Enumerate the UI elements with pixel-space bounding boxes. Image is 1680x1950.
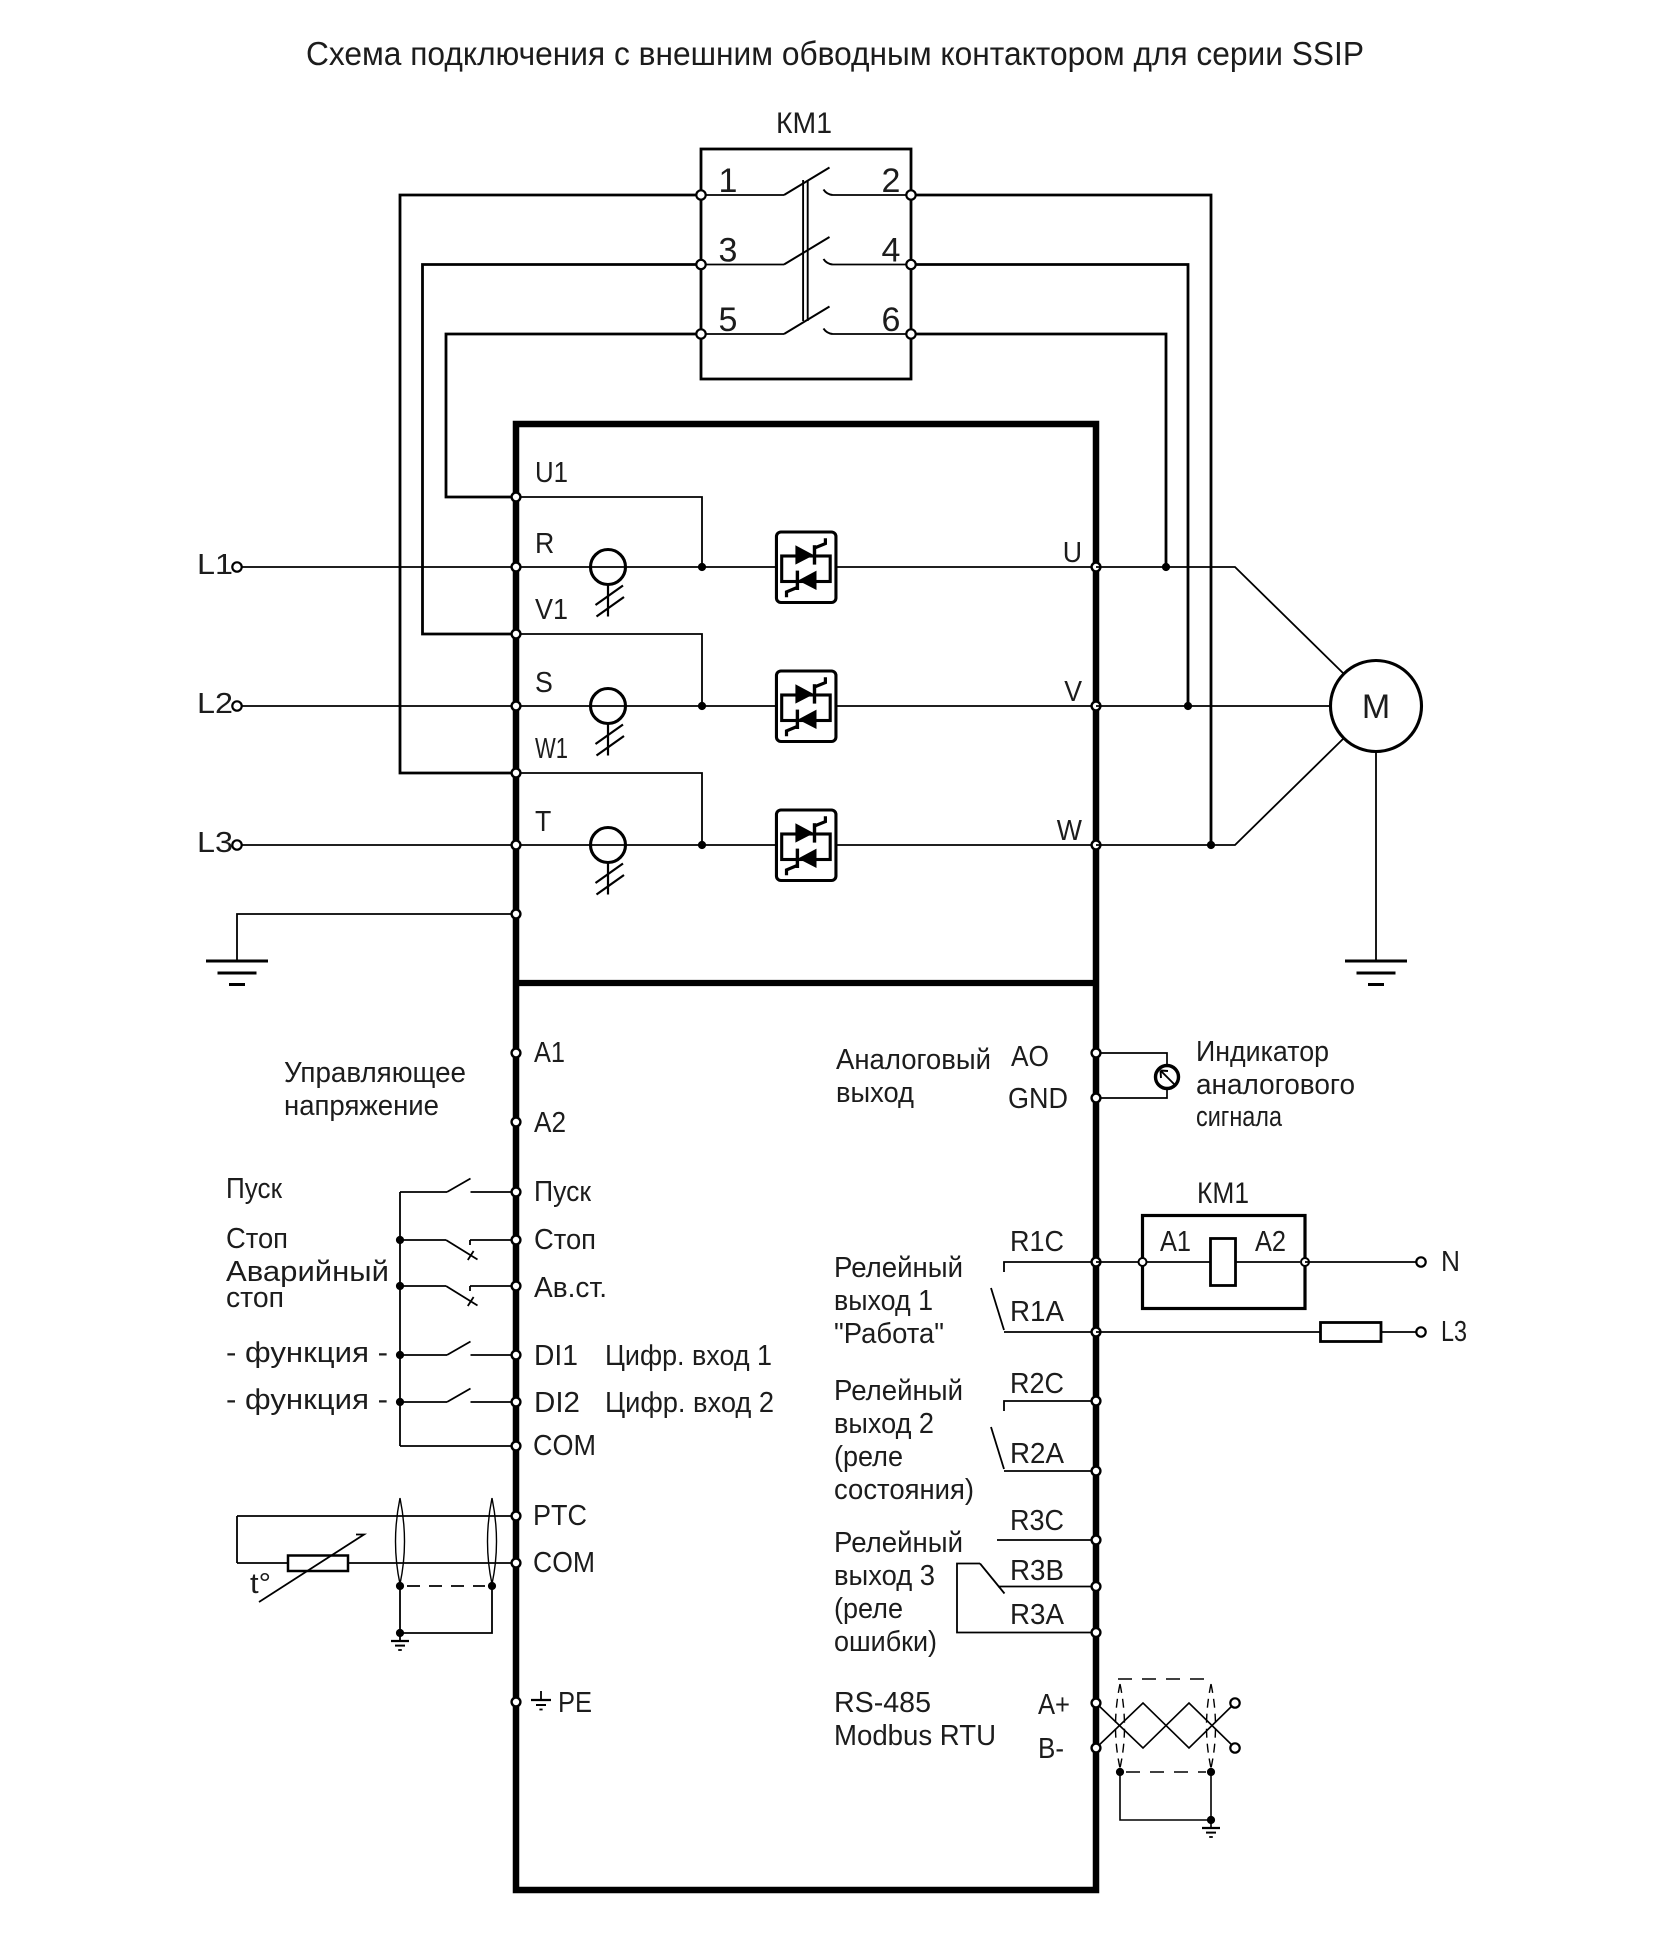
terminal W1 [512, 769, 521, 778]
terminal T [512, 841, 521, 850]
svg-text:4: 4 [882, 232, 901, 270]
soft starter enclosure [516, 424, 1096, 1890]
svg-text:5: 5 [719, 301, 738, 339]
svg-text:A+: A+ [1038, 1689, 1070, 1721]
node L3 (coil supply) [1416, 1327, 1425, 1336]
emergency stop button SB3 (Ав.ст.) contact (NC) [400, 1286, 516, 1306]
svg-text:DI1: DI1 [534, 1340, 578, 1372]
remote node B- [1230, 1743, 1239, 1752]
svg-text:t°: t° [250, 1568, 271, 1600]
terminal GND [1092, 1094, 1101, 1103]
stop button SB2 (Стоп) contact (NC) [400, 1240, 516, 1260]
terminal DI2 [512, 1398, 521, 1407]
svg-text:Стоп: Стоп [226, 1223, 288, 1255]
screen drain junction [396, 1629, 404, 1637]
terminal R3C [1092, 1536, 1101, 1545]
junction of W1 tap [698, 841, 706, 849]
start button SB1 (Пуск) contact (NO) [400, 1179, 516, 1193]
wire bus to COM [400, 1445, 516, 1447]
screen drain node right [488, 1582, 496, 1590]
thyristor pair phase T [776, 810, 836, 881]
KM1 terminal 4 [906, 260, 915, 269]
svg-text:выход 2: выход 2 [834, 1408, 934, 1440]
supply terminal L1 [232, 562, 241, 571]
svg-text:A1: A1 [1160, 1226, 1191, 1258]
KM1 main contact 1-2 [701, 168, 911, 196]
junction KM1 bypass to U [1162, 563, 1170, 571]
bypass tap wire W1 [516, 773, 702, 845]
svg-text:L2: L2 [197, 688, 233, 720]
KM1 coil terminal A1 [1139, 1258, 1147, 1266]
svg-text:V1: V1 [535, 594, 568, 626]
svg-text:Управляющее: Управляющее [284, 1057, 466, 1089]
current sensor on phase S [591, 689, 626, 756]
svg-text:AO: AO [1011, 1041, 1049, 1073]
wire KM1 pin3 to V1 [423, 265, 702, 635]
svg-text:W1: W1 [535, 733, 568, 765]
thyristor pair phase R [776, 532, 836, 603]
terminal R1A [1092, 1328, 1101, 1337]
terminal COM [512, 1442, 521, 1451]
svg-text:U: U [1063, 537, 1082, 569]
KM1 main contact 3-4 [701, 237, 911, 265]
svg-text:T: T [535, 806, 552, 838]
KM1 coil terminal A2 [1301, 1258, 1309, 1266]
svg-text:Цифр. вход 1: Цифр. вход 1 [605, 1340, 772, 1372]
digital input common bus [399, 1192, 401, 1446]
terminal R1C [1092, 1258, 1101, 1267]
fuse FU1 [1321, 1323, 1382, 1342]
svg-text:Пуск: Пуск [226, 1173, 282, 1205]
terminal U1 [512, 493, 521, 502]
thyristor pair phase S [776, 671, 836, 742]
svg-text:Аналоговый: Аналоговый [836, 1044, 991, 1076]
screen ground stub [399, 1633, 401, 1641]
junction DI1 bus [396, 1351, 404, 1359]
current sensor on phase T [591, 828, 626, 895]
terminal U [1092, 563, 1101, 572]
svg-text:выход 3: выход 3 [834, 1560, 935, 1592]
svg-text:PTC: PTC [533, 1500, 587, 1532]
KM1 mechanical linkage [803, 180, 808, 321]
svg-text:Пуск: Пуск [534, 1176, 591, 1208]
terminal R3B [1092, 1582, 1101, 1591]
svg-text:выход 1: выход 1 [834, 1285, 933, 1317]
KM1 terminal 5 [696, 329, 705, 338]
svg-text:3: 3 [719, 232, 738, 270]
svg-text:КМ1: КМ1 [776, 107, 832, 140]
wire fuse to L3 [1381, 1331, 1417, 1333]
terminal Стоп [512, 1236, 521, 1245]
ground (PTC screen) [391, 1641, 409, 1650]
wire W to motor [1096, 738, 1344, 845]
svg-text:L3: L3 [197, 827, 233, 859]
motor M1 [1331, 661, 1422, 752]
wire KM1 pin1 to W1 [400, 195, 701, 773]
screen drain wire left [1120, 1772, 1211, 1820]
svg-text:ошибки): ошибки) [834, 1626, 937, 1658]
svg-text:U1: U1 [535, 457, 568, 489]
screen drain wire right [400, 1586, 492, 1633]
svg-text:Ав.ст.: Ав.ст. [534, 1272, 607, 1304]
terminal W [1092, 841, 1101, 850]
terminal S [512, 702, 521, 711]
terminal DI1 [512, 1351, 521, 1360]
svg-text:L1: L1 [197, 549, 233, 581]
svg-text:Цифр. вход 2: Цифр. вход 2 [605, 1387, 774, 1419]
wire R1C to KM1 coil [1096, 1261, 1142, 1263]
wire KM1 pin6 to U output [911, 334, 1166, 567]
svg-text:GND: GND [1008, 1083, 1068, 1115]
starter earth wire [237, 914, 516, 961]
terminal V [1092, 702, 1101, 711]
PE earth glyph [531, 1691, 551, 1710]
thermistor strike line [259, 1535, 364, 1603]
ground (RS-485 screen) [1202, 1828, 1220, 1837]
function switch DI2 contact (NO) [400, 1389, 516, 1403]
terminal AO [1092, 1049, 1101, 1058]
svg-text:стоп: стоп [226, 1282, 284, 1314]
KM1 terminal 2 [906, 190, 915, 199]
wire A2 to N [1305, 1261, 1417, 1263]
terminal V1 [512, 630, 521, 639]
junction stop bus [396, 1236, 404, 1244]
svg-text:Стоп: Стоп [534, 1224, 596, 1256]
svg-text:6: 6 [882, 301, 901, 339]
svg-text:- функция -: - функция - [226, 1384, 388, 1416]
svg-text:R3B: R3B [1010, 1555, 1064, 1587]
remote node A+ [1230, 1698, 1239, 1707]
junction of V1 tap [698, 702, 706, 710]
thermistor RK1 body [288, 1556, 348, 1572]
KM1 coil wire A1 side [1147, 1261, 1210, 1263]
svg-text:R1C: R1C [1010, 1226, 1064, 1258]
terminal A2 [512, 1118, 521, 1127]
terminal Ав.ст. [512, 1282, 521, 1291]
screen drain junction [1207, 1816, 1215, 1824]
svg-text:"Работа": "Работа" [834, 1318, 944, 1350]
cable screen mark right [1207, 1684, 1216, 1768]
PTC cable screen mark right [488, 1498, 497, 1584]
wire U to motor [1096, 567, 1344, 674]
wire R1A to fuse [1096, 1331, 1320, 1333]
function switch DI1 contact (NO) [400, 1342, 516, 1356]
svg-text:R: R [535, 528, 554, 560]
power / control section divider [516, 980, 1096, 986]
wire L3 to input T [242, 844, 516, 846]
svg-text:R3A: R3A [1010, 1599, 1065, 1631]
svg-text:N: N [1441, 1246, 1460, 1278]
screen drain node left [396, 1582, 404, 1590]
svg-text:M: M [1362, 688, 1390, 726]
terminal COM (PTC return) [512, 1559, 521, 1568]
starter earth terminal [512, 910, 521, 919]
svg-text:Релейный: Релейный [834, 1252, 963, 1284]
wire L1 to input R [242, 566, 516, 568]
wire input T to thyristor [516, 844, 782, 846]
junction emergency stop bus [396, 1282, 404, 1290]
svg-text:A2: A2 [534, 1107, 566, 1139]
wire input R to thyristor [516, 566, 782, 568]
screen drain node left [1116, 1768, 1124, 1776]
terminal R2A [1092, 1467, 1101, 1476]
terminal A1 [512, 1049, 521, 1058]
svg-text:1: 1 [719, 162, 738, 200]
svg-text:аналогового: аналогового [1196, 1069, 1355, 1101]
wire L2 to input S [242, 705, 516, 707]
screen drain node right [1207, 1768, 1215, 1776]
terminal PE [512, 1698, 521, 1707]
junction KM1 bypass to W [1207, 841, 1215, 849]
terminal PTC [512, 1512, 521, 1521]
supply terminal L2 [232, 701, 241, 710]
bypass tap wire U1 [516, 497, 702, 567]
bypass tap wire V1 [516, 634, 702, 706]
node N [1416, 1257, 1425, 1266]
wire PTC loop left [236, 1516, 238, 1563]
terminal R2C [1092, 1397, 1101, 1406]
cable screen mark left [1116, 1684, 1125, 1768]
wire indicator to GND [1096, 1089, 1167, 1099]
svg-text:(реле: (реле [834, 1441, 903, 1473]
svg-text:напряжение: напряжение [284, 1090, 439, 1122]
ground (starter earth) [206, 961, 268, 985]
svg-text:A1: A1 [534, 1037, 565, 1069]
junction DI2 bus [396, 1398, 404, 1406]
motor earth wire [1375, 752, 1377, 962]
svg-text:DI2: DI2 [534, 1387, 580, 1419]
terminal R3A [1092, 1628, 1101, 1637]
svg-text:2: 2 [882, 162, 901, 200]
svg-text:R2C: R2C [1010, 1368, 1064, 1400]
ground (motor) [1345, 961, 1407, 985]
cable sheath dashed outline [1118, 1679, 1212, 1772]
wire thyristor to output U [831, 566, 1097, 568]
wire thyristor to output W [831, 844, 1097, 846]
svg-text:W: W [1057, 815, 1083, 847]
wire KM1 pin4 to V output [911, 265, 1188, 707]
KM1 coil element [1211, 1239, 1236, 1286]
svg-text:R3C: R3C [1010, 1505, 1064, 1537]
wire KM1 pin2 to W output [911, 195, 1211, 845]
KM1 terminal 1 [696, 190, 705, 199]
screen drain wire right [1210, 1772, 1212, 1820]
relay contact R2 [991, 1401, 1096, 1471]
svg-text:COM: COM [533, 1430, 596, 1462]
screen ground stub [1210, 1820, 1212, 1828]
junction KM1 bypass to V [1184, 702, 1192, 710]
svg-text:PE: PE [558, 1687, 592, 1719]
svg-text:S: S [535, 667, 553, 699]
svg-text:Релейный: Релейный [834, 1375, 963, 1407]
svg-text:КМ1: КМ1 [1197, 1177, 1249, 1210]
svg-text:(реле: (реле [834, 1593, 903, 1625]
wire PTC loop bottom [237, 1562, 516, 1564]
svg-text:V: V [1064, 676, 1082, 708]
svg-text:COM: COM [533, 1547, 595, 1579]
KM1 main contact 5-6 [701, 307, 911, 335]
svg-text:Индикатор: Индикатор [1196, 1036, 1329, 1068]
terminal A+ [1092, 1699, 1101, 1708]
KM1 terminal 6 [906, 329, 915, 338]
supply terminal L3 [232, 840, 241, 849]
svg-text:Modbus RTU: Modbus RTU [834, 1720, 996, 1752]
KM1 coil wire A2 side [1236, 1261, 1300, 1263]
terminal Пуск [512, 1188, 521, 1197]
KM1 terminal 3 [696, 260, 705, 269]
relay contact R3 (changeover) [957, 1540, 1096, 1633]
indicator needle [1161, 1071, 1175, 1085]
terminal R [512, 563, 521, 572]
svg-text:A2: A2 [1255, 1226, 1286, 1258]
svg-text:R2A: R2A [1010, 1438, 1065, 1470]
relay contact R1 [991, 1262, 1096, 1332]
svg-text:B-: B- [1038, 1733, 1064, 1765]
svg-text:- функция -: - функция - [226, 1337, 388, 1369]
RS-485 twisted pair wire B [1096, 1703, 1235, 1748]
svg-text:RS-485: RS-485 [834, 1687, 931, 1719]
svg-text:Схема подключения с внешним об: Схема подключения с внешним обводным кон… [306, 35, 1364, 72]
wire V to motor [1096, 705, 1331, 707]
svg-text:L3: L3 [1441, 1316, 1467, 1348]
svg-text:R1A: R1A [1010, 1296, 1065, 1328]
contactor KM1 (bypass) body [701, 149, 911, 379]
analog signal indicator P1 [1156, 1066, 1179, 1089]
screen dashed link [407, 1585, 485, 1587]
PTC cable screen mark left [396, 1498, 405, 1584]
RS-485 twisted pair wire A [1096, 1703, 1235, 1748]
wire PTC loop top [237, 1515, 516, 1517]
contactor KM1 coil box [1143, 1216, 1306, 1309]
svg-text:сигнала: сигнала [1196, 1101, 1283, 1133]
wire input S to thyristor [516, 705, 782, 707]
junction of U1 tap [698, 563, 706, 571]
screen drain wire left [399, 1586, 401, 1633]
svg-text:состояния): состояния) [834, 1474, 974, 1506]
wire KM1 pin5 to U1 [446, 334, 701, 497]
terminal B- [1092, 1744, 1101, 1753]
wire thyristor to output V [831, 705, 1097, 707]
current sensor on phase R [591, 550, 626, 617]
wire AO to indicator [1096, 1053, 1167, 1066]
svg-text:выход: выход [836, 1077, 914, 1109]
svg-text:Релейный: Релейный [834, 1527, 963, 1559]
